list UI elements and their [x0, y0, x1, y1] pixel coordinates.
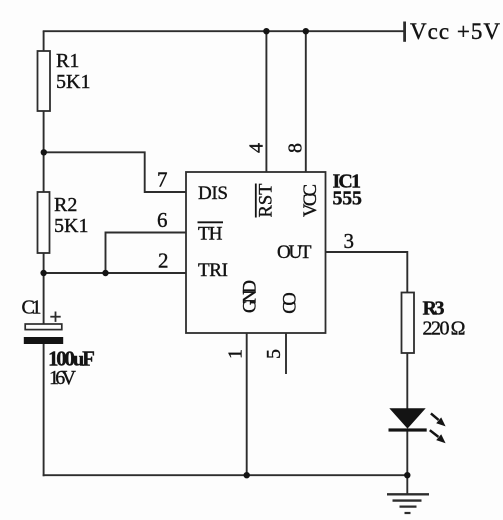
svg-text:R1: R1 [56, 50, 79, 72]
svg-text:5: 5 [263, 349, 285, 359]
wire left column from top rail to R1 [43, 31, 45, 52]
op-amp IC1 555 body box [186, 172, 326, 333]
junction dot node top rail pin 8 [303, 28, 309, 34]
wire bottom ground rail [43, 474, 408, 476]
resistor R2 [38, 192, 50, 253]
svg-text:TRI: TRI [198, 260, 228, 281]
wire C1 bottom to ground rail [43, 344, 45, 476]
svg-text:6: 6 [157, 208, 168, 232]
Vcc terminal bar [403, 22, 406, 42]
LED D1 emission arrow upper [431, 413, 446, 426]
wire pin 4 RST to top rail [265, 31, 267, 172]
svg-text:4: 4 [246, 143, 268, 153]
resistor R3 [402, 293, 415, 354]
pin label RST rotated with overline [256, 184, 277, 218]
capacitor C1 top plate [25, 324, 62, 330]
svg-text:C1: C1 [22, 297, 42, 319]
wire pin 5 CO stub [285, 333, 287, 374]
svg-text:CO: CO [281, 292, 301, 314]
wire top power rail [43, 30, 404, 32]
LED D1 triangle [389, 408, 425, 428]
resistor R1 [38, 51, 51, 111]
svg-text:5K1: 5K1 [54, 215, 88, 237]
svg-text:16V: 16V [49, 367, 77, 389]
ground symbol stub [406, 475, 408, 494]
wire pin 6 TH branch [106, 233, 187, 274]
capacitor C1 plus polarity mark [50, 312, 60, 322]
wire LED cathode to bottom rail [406, 431, 408, 475]
wire pin 3 OUT to R3 [326, 252, 408, 293]
wire R2 bottom to node B [43, 253, 45, 324]
wire node A to pin 7 corner [44, 152, 186, 192]
LED D1 cathode bar [389, 428, 427, 431]
pin label TH with overline [198, 222, 224, 244]
svg-text:1: 1 [225, 349, 247, 359]
svg-text:7: 7 [157, 168, 168, 192]
svg-text:TH: TH [198, 224, 223, 245]
svg-text:3: 3 [344, 229, 355, 253]
wire R1 bottom to node A [43, 111, 45, 193]
junction dot node top rail pin 4 [263, 28, 269, 34]
svg-text:VCC: VCC [301, 184, 321, 217]
LED D1 emission arrow lower [430, 430, 446, 443]
ground symbol bars [387, 494, 429, 513]
capacitor C1 bottom plate [24, 337, 63, 344]
svg-text:GND: GND [241, 280, 261, 313]
svg-text:2: 2 [158, 249, 169, 273]
junction dot node GND rail LED [404, 472, 410, 478]
svg-text:DIS: DIS [198, 183, 228, 204]
svg-text:R3: R3 [423, 298, 445, 320]
svg-text:R2: R2 [54, 194, 77, 216]
svg-text:Vcc +5V: Vcc +5V [410, 19, 500, 44]
wire pin 1 GND to bottom rail [246, 333, 248, 475]
svg-text:OUT: OUT [277, 242, 312, 263]
wire pin 8 VCC to top rail [305, 31, 307, 172]
svg-text:220 Ω: 220 Ω [423, 318, 466, 340]
svg-text:5K1: 5K1 [56, 71, 90, 93]
junction dot node GND rail pin 1 [244, 472, 250, 478]
svg-text:RST: RST [257, 184, 277, 218]
svg-text:8: 8 [285, 143, 307, 153]
wire R3 bottom to LED [406, 353, 408, 409]
svg-text:555: 555 [333, 188, 363, 210]
wire pin 2 TRI from node B [44, 272, 186, 274]
junction dot node B R2-C1-TRI [40, 270, 46, 276]
junction dot node TH-TRI [102, 270, 108, 276]
junction dot node A R1-R2 [41, 149, 47, 155]
